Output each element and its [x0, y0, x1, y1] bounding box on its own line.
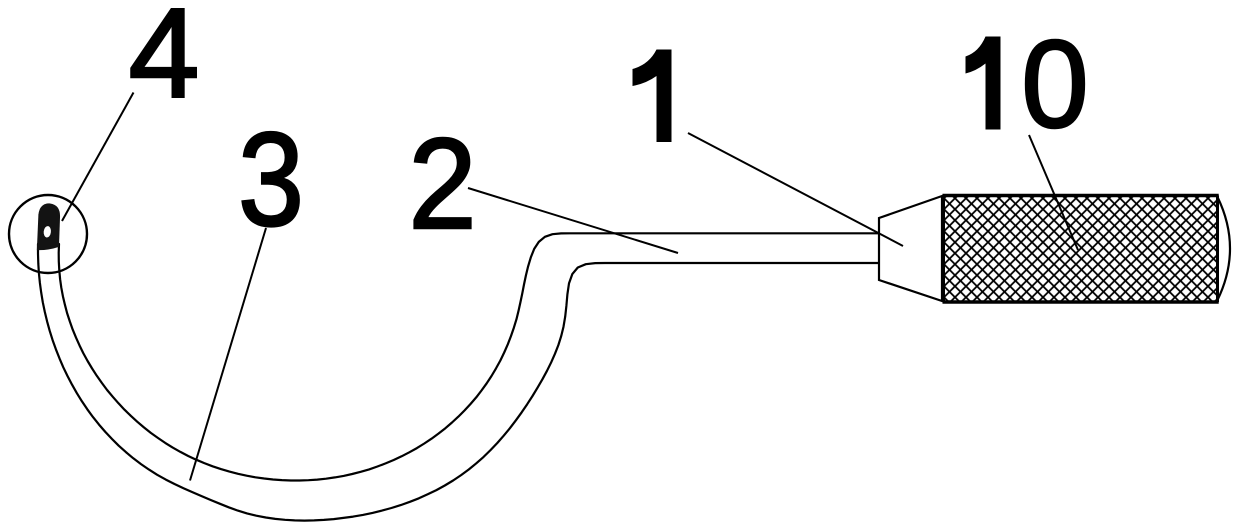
svg-text:2: 2	[408, 111, 476, 256]
handle right end bulge arc	[1218, 197, 1231, 300]
svg-text:4: 4	[129, 0, 200, 124]
tapered connector (part 1)	[879, 196, 942, 301]
svg-text:0: 0	[1021, 15, 1088, 154]
tube body: hook 3 and shaft 2	[38, 233, 895, 520]
svg-text:3: 3	[238, 105, 304, 254]
leader line for 10	[1029, 135, 1078, 250]
handle right edge	[1216, 196, 1219, 303]
handle bottom edge	[943, 300, 1219, 304]
leader line for 1	[688, 133, 903, 246]
handle top edge	[943, 194, 1219, 198]
label 1	[633, 50, 672, 143]
magnifier circle around tip 4	[9, 195, 87, 273]
leader line for 2	[468, 188, 678, 253]
label 10 digit 1	[966, 37, 1001, 130]
handle body (part 10) with knurled crosshatch	[944, 196, 1218, 303]
tip hole	[43, 226, 51, 238]
tip cap (dark distal tip, part 4)	[37, 203, 61, 251]
leader line for 3	[190, 228, 266, 481]
handle left edge	[943, 196, 945, 303]
leader line for 4	[62, 93, 134, 222]
